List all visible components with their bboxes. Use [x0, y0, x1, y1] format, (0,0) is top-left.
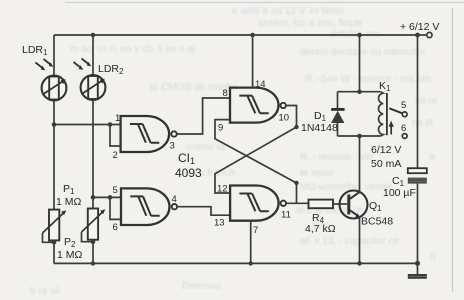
junction dot pin14 top: [250, 33, 255, 38]
NAND gate U1D pins 12,13 -> 11: [230, 186, 286, 221]
svg-text:m acr ro n, ea v cb, li es o a: m acr ro n, ea v cb, li es o al: [70, 44, 195, 55]
junction dot ground node: [415, 261, 420, 266]
svg-text:R, - resistor - ver: R, - resistor - ver: [300, 152, 375, 163]
wire C1 bottom: [417, 184, 419, 274]
junction dot LDR2 top: [91, 33, 96, 38]
svg-text:4,7 kΩ: 4,7 kΩ: [305, 223, 336, 235]
relay loop bottom wire: [338, 135, 381, 137]
wire emitter: [359, 217, 361, 263]
junction dot relay feed top: [357, 33, 362, 38]
svg-text:na R: na R: [412, 118, 433, 129]
relay loop top wire: [338, 91, 381, 93]
svg-text:5: 5: [401, 100, 406, 111]
LDR1 light arrows: [36, 59, 51, 68]
wire node B to gate2 input: [93, 196, 121, 198]
wire LDR2 top lead: [92, 35, 94, 76]
LDR2 light arrows: [74, 59, 89, 68]
wire R4 to base: [333, 203, 347, 205]
svg-text:8: 8: [223, 88, 228, 99]
junction dot gate2 input: [108, 195, 113, 200]
resistor R4: [309, 200, 334, 209]
junction dot pin7 rail: [249, 261, 253, 265]
wire LDR1 bottom lead / node A: [53, 100, 55, 209]
diode D1: [331, 108, 345, 123]
wire top rail: [54, 34, 418, 36]
svg-text:9: 9: [218, 123, 223, 134]
svg-text:aF x 13, - capacitor ce: aF x 13, - capacitor ce: [300, 236, 399, 247]
wire relay feed vertical: [359, 35, 361, 92]
svg-text:1 MΩ: 1 MΩ: [56, 196, 82, 208]
wire right rail vertical: [417, 35, 419, 168]
svg-text:b ra sil: b ra sil: [30, 286, 59, 297]
relay contact 6: [402, 134, 407, 139]
NAND gate U1B pins 5,6 -> 4: [121, 188, 177, 225]
svg-text:7: 7: [253, 225, 258, 236]
svg-text:2: 2: [113, 150, 118, 161]
junction dot P2 rail: [91, 261, 95, 265]
svg-text:4093: 4093: [175, 166, 202, 180]
svg-text:6: 6: [113, 222, 118, 233]
junction dot relay bottom: [357, 134, 362, 139]
svg-text:1N4148: 1N4148: [301, 122, 338, 134]
junction dot node A: [52, 122, 57, 127]
wire P1 bottom lead: [53, 240, 55, 263]
svg-text:6: 6: [401, 123, 406, 134]
junction dot P2 wiper tie: [91, 239, 96, 244]
relay K1 coil: [379, 92, 387, 136]
svg-text:10: 10: [279, 113, 290, 124]
svg-text:3: 3: [170, 141, 175, 152]
LDR1 photoresistor: [42, 76, 67, 101]
wire P2 bottom lead: [92, 240, 94, 264]
svg-text:aceitar, luz a seu, fincar: aceitar, luz a seu, fincar: [258, 18, 364, 29]
potentiometer P1: [43, 210, 67, 243]
wire gate2 out to pin13: [177, 207, 230, 216]
svg-text:14: 14: [255, 79, 266, 90]
capacitor C1: [408, 168, 427, 183]
scan column rule right: [452, 8, 454, 292]
svg-text:1: 1: [115, 113, 120, 124]
wire LDR2 bottom lead / node B: [92, 99, 94, 209]
junction dot cross A: [294, 125, 298, 129]
svg-text:cnémr ta: cnémr ta: [186, 142, 225, 153]
svg-text:+ 6/12 V: + 6/12 V: [400, 21, 439, 33]
wire gate1 out to pin8: [177, 98, 230, 134]
junction dot cross B: [294, 181, 298, 185]
wire node A to gate1 input: [54, 124, 121, 126]
svg-text:5: 5: [113, 185, 118, 196]
wire LDR1 top lead: [53, 35, 55, 76]
wire pin11 out to R4: [286, 202, 309, 204]
relay contact 5: [402, 112, 407, 117]
wire supply stub: [418, 34, 427, 36]
wire pin10 to pin12 cross-coupling: [215, 106, 297, 194]
svg-text:11: 11: [281, 210, 291, 221]
svg-text:6/12 V: 6/12 V: [371, 144, 401, 156]
svg-text:denroi deroque ou iotemotor: denroi deroque ou iotemotor: [300, 47, 426, 58]
scan artifact top line: [65, 2, 464, 4]
svg-text:я: я: [430, 152, 435, 163]
wire pin 14 supply: [252, 35, 254, 88]
wire bottom rail: [54, 262, 418, 264]
wire pin11 to pin9 cross-coupling: [215, 120, 297, 204]
ground symbol: [408, 274, 427, 279]
svg-text:50 mA: 50 mA: [371, 158, 401, 170]
junction dot P1 wiper tie: [52, 240, 57, 245]
wire collector: [359, 136, 361, 192]
svg-text:e aete b ou 12 V. er texto: e aete b ou 12 V. er texto: [232, 6, 344, 17]
svg-text:q: q: [430, 250, 436, 261]
svg-text:1 MΩ: 1 MΩ: [57, 249, 83, 261]
svg-text:BC548: BC548: [361, 216, 393, 228]
junction dot node B: [91, 195, 96, 200]
svg-text:Diversos: Diversos: [182, 281, 221, 292]
relay contact lever: [389, 108, 402, 113]
potentiometer P2: [82, 209, 106, 242]
junction dot emitter rail: [357, 261, 362, 266]
relay actuation arrow: [390, 125, 392, 135]
NAND gate U1A pins 1,2 -> 3: [121, 116, 177, 152]
junction dot gate1 input: [108, 122, 113, 127]
svg-text:100 µF: 100 µF: [383, 187, 416, 199]
diode D1 branch wires: [337, 92, 339, 109]
svg-text:te meio: te meio: [300, 168, 333, 179]
terminal + supply circle: [427, 32, 432, 37]
wire pin 7 ground: [250, 221, 252, 264]
wire pin6 tie loop: [110, 197, 121, 219]
transistor Q1 BC548: [340, 191, 368, 219]
svg-text:13: 13: [214, 218, 225, 229]
svg-text:R, -54e W - resistor - ma bm: R, -54e W - resistor - ma bm: [305, 74, 431, 85]
svg-text:4: 4: [172, 194, 177, 205]
LDR2 photoresistor: [81, 75, 106, 100]
junction dot relay top: [357, 89, 362, 94]
junction dot supply terminal: [415, 33, 420, 38]
wire pin2 tie loop: [110, 125, 121, 147]
NAND gate U1C pins 8,9 -> 10: [230, 88, 286, 123]
